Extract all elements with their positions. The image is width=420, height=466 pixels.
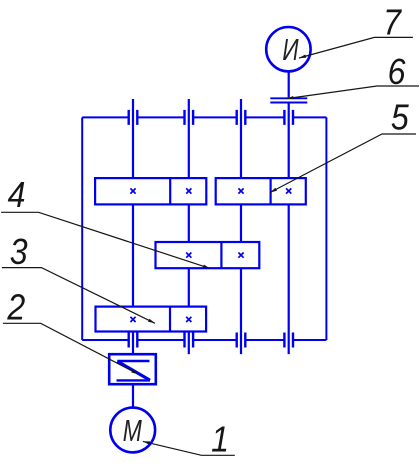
gear block B shafts III-IV xyxy=(216,178,306,204)
arrow 7 xyxy=(299,55,306,59)
svg-text:1: 1 xyxy=(211,420,229,460)
shaft II xyxy=(188,99,190,354)
shaft I xyxy=(132,99,134,408)
shaft mark A1 xyxy=(130,188,135,193)
leader 7 xyxy=(299,37,413,58)
svg-text:М: М xyxy=(123,413,142,448)
bearing shaft III bottom xyxy=(237,333,246,348)
leader 1 xyxy=(143,441,235,455)
clutch Z symbol xyxy=(117,361,151,380)
shaft IV xyxy=(288,72,290,355)
bearing shaft I top xyxy=(129,110,138,125)
svg-text:4: 4 xyxy=(8,175,26,215)
arrow 1 xyxy=(143,441,150,444)
frame bottom wall xyxy=(82,339,326,341)
gear block A shafts I-II xyxy=(95,178,206,204)
shaft III xyxy=(240,99,242,354)
indicator circle U xyxy=(266,27,310,71)
frame left wall xyxy=(81,117,83,340)
motor circle M xyxy=(110,408,155,453)
bearing shaft I bottom xyxy=(129,333,138,348)
shaft mark B2 xyxy=(286,188,291,193)
arrow 2 xyxy=(131,370,138,375)
bearing shaft III top xyxy=(237,110,246,125)
leader 2 xyxy=(3,323,138,374)
leader 3 xyxy=(2,268,155,324)
arrow 4 xyxy=(203,265,210,269)
svg-text:6: 6 xyxy=(388,52,407,92)
leader 5 xyxy=(270,134,416,193)
arrow 3 xyxy=(148,319,155,324)
shaft mark M2 xyxy=(238,253,243,258)
leader 4 xyxy=(1,212,210,268)
svg-text:7: 7 xyxy=(383,3,403,43)
shaft mark C2 xyxy=(186,317,191,322)
frame top wall xyxy=(82,116,326,118)
frame right wall xyxy=(325,117,327,340)
shaft mark M1 xyxy=(186,253,191,258)
arrow 5 xyxy=(270,188,277,193)
shaft mark B1 xyxy=(238,188,243,193)
bearing shaft IV bottom xyxy=(284,333,293,348)
bearing shaft IV top xyxy=(284,110,293,125)
bearing shaft II top xyxy=(185,110,194,125)
bearing shaft II bottom xyxy=(185,333,194,348)
shaft mark C1 xyxy=(130,317,135,322)
gear block bottom shafts I-II xyxy=(96,307,207,332)
leader 6 xyxy=(287,86,420,99)
gear block middle shafts II-III xyxy=(156,242,260,268)
arrow 6 xyxy=(287,96,294,99)
svg-text:5: 5 xyxy=(391,98,410,138)
coupling 6 plates xyxy=(270,98,307,102)
svg-text:3: 3 xyxy=(10,232,28,272)
shaft mark A2 xyxy=(186,188,191,193)
safety clutch box 2 xyxy=(109,354,156,384)
svg-text:2: 2 xyxy=(6,288,25,328)
svg-text:И: И xyxy=(282,32,299,67)
